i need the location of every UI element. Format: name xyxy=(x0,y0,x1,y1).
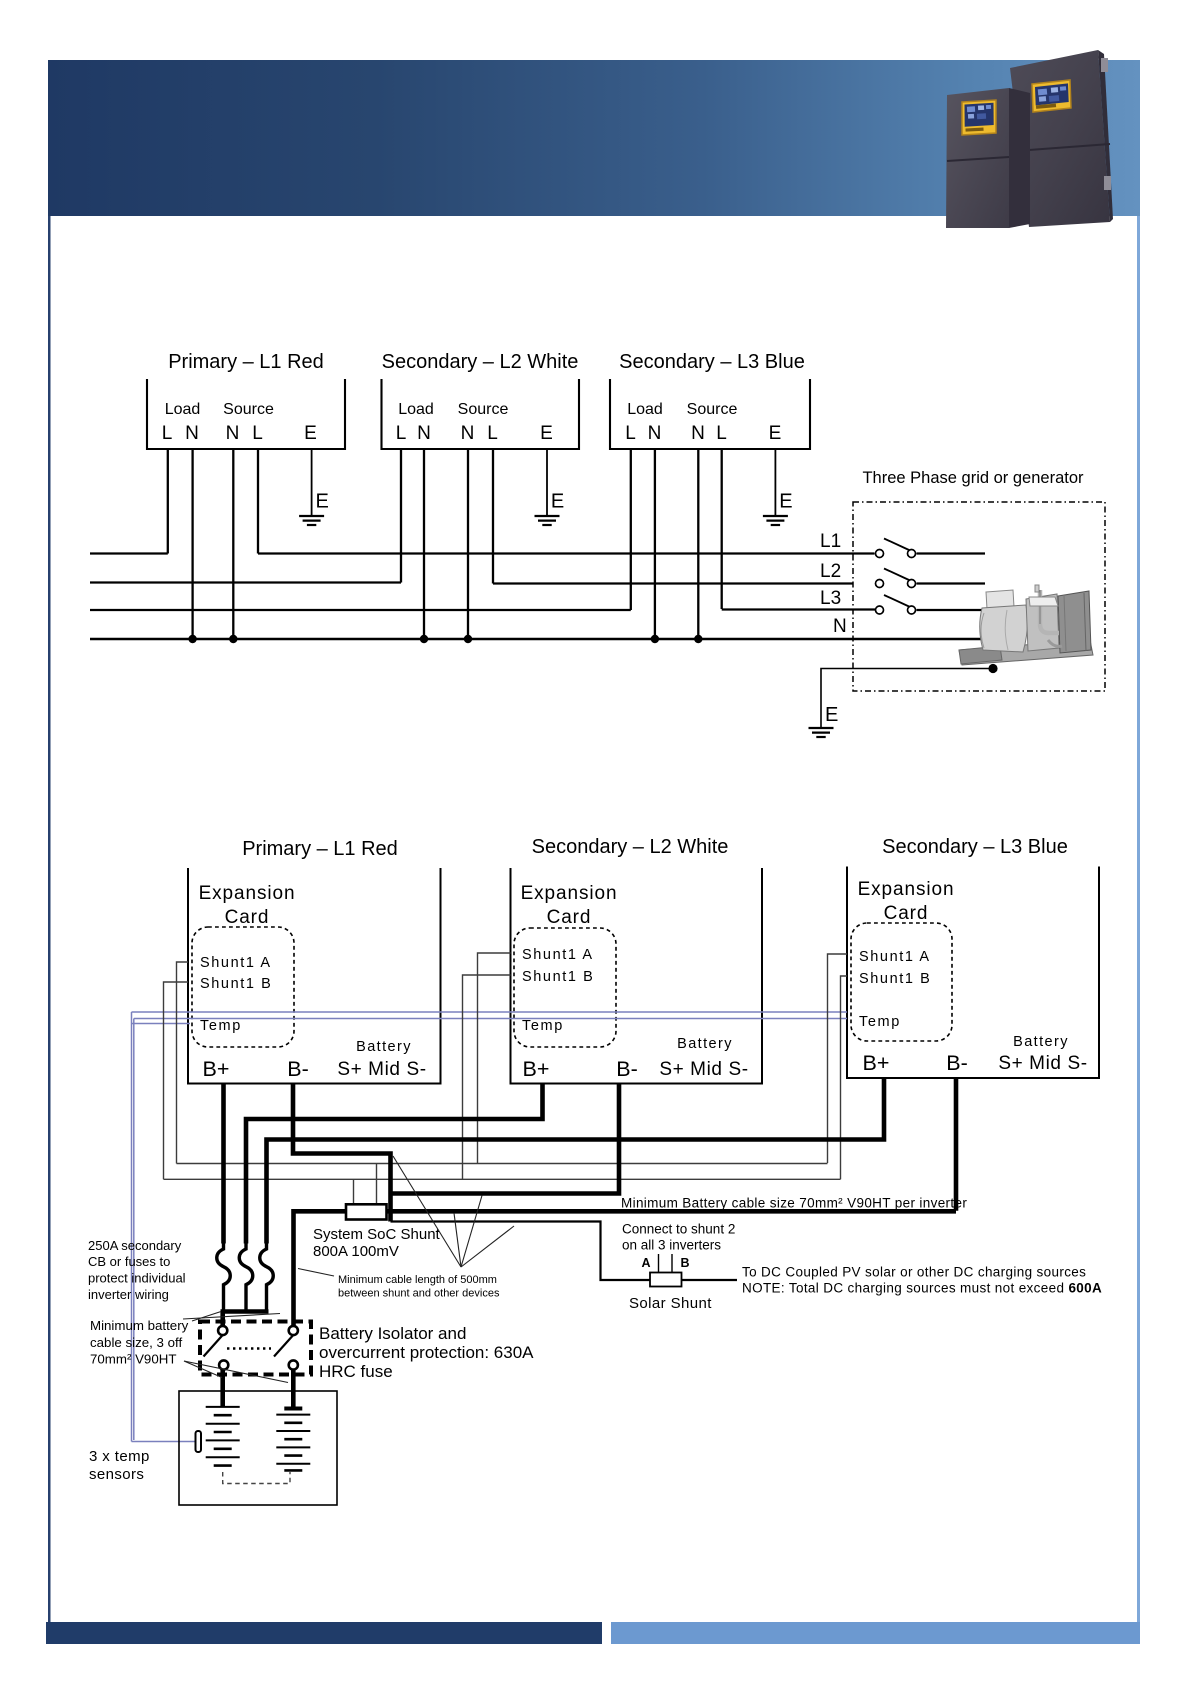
svg-text:Source: Source xyxy=(223,401,274,418)
svg-text:Shunt1 B: Shunt1 B xyxy=(859,971,931,987)
svg-text:L: L xyxy=(716,423,727,444)
svg-text:B+: B+ xyxy=(863,1051,890,1075)
svg-text:Secondary – L2 White: Secondary – L2 White xyxy=(532,836,729,858)
shunt sense terminal riser 1 xyxy=(353,1179,355,1205)
svg-text:L: L xyxy=(396,423,407,444)
svg-text:B: B xyxy=(680,1256,689,1270)
junction N-U1 source xyxy=(229,635,237,643)
svg-text:on all 3 inverters: on all 3 inverters xyxy=(622,1238,721,1253)
wire L3 load feeder to left xyxy=(90,609,631,611)
cable B+3 run xyxy=(267,1078,885,1244)
inverter DC box C (Secondary L3) xyxy=(847,867,1099,1079)
isolator gang dotted link xyxy=(227,1347,271,1349)
inverter AC box U2 (Secondary L2) xyxy=(382,379,580,449)
svg-text:Source: Source xyxy=(458,401,509,418)
wire U2 E drop xyxy=(546,449,548,516)
shunt sense wires thin xyxy=(164,953,848,1205)
leader fan ray 2 xyxy=(454,1213,461,1267)
ground symbol E under U3 xyxy=(763,516,788,525)
battery bank box xyxy=(179,1391,337,1505)
svg-text:E: E xyxy=(316,491,329,513)
LOWER-DIAGRAM xyxy=(188,867,1099,1084)
leader min battery long xyxy=(183,1314,280,1320)
svg-text:System SoC Shunt: System SoC Shunt xyxy=(313,1226,441,1243)
wire U1 Load N drop xyxy=(191,449,193,639)
wire L3 source bus xyxy=(722,608,875,610)
svg-text:E: E xyxy=(304,423,317,444)
svg-text:Load: Load xyxy=(165,401,201,418)
svg-text:B-: B- xyxy=(616,1057,638,1081)
svg-text:S+ Mid S-: S+ Mid S- xyxy=(337,1059,426,1080)
inverter photo left device xyxy=(946,88,1030,228)
svg-text:Shunt1 A: Shunt1 A xyxy=(200,955,272,971)
svg-text:E: E xyxy=(540,423,553,444)
isolator pole 2 blade xyxy=(274,1335,293,1357)
cable B-1 run xyxy=(293,1084,391,1222)
svg-text:S+ Mid S-: S+ Mid S- xyxy=(998,1053,1087,1074)
svg-text:Load: Load xyxy=(627,401,663,418)
fuse F3 squiggle xyxy=(260,1244,274,1312)
leader fan ray 1 xyxy=(393,1156,461,1267)
svg-text:B+: B+ xyxy=(523,1057,550,1081)
svg-text:Minimum Battery cable size 70m: Minimum Battery cable size 70mm² V90HT p… xyxy=(621,1196,967,1211)
blue temp riser xyxy=(131,1012,133,1442)
wire U3 Source N drop xyxy=(697,449,699,639)
svg-text:between shunt and other device: between shunt and other devices xyxy=(338,1288,500,1300)
inverter DC box A (Primary L1) xyxy=(188,868,441,1084)
leader V90HT to cable 2 xyxy=(184,1361,288,1383)
svg-text:Expansion: Expansion xyxy=(521,883,618,904)
leader fan ray 4 xyxy=(461,1226,514,1267)
temp sensor pill on battery xyxy=(196,1431,202,1452)
svg-text:L: L xyxy=(625,423,636,444)
wire L2 load feeder to left xyxy=(90,581,401,583)
inverter AC box U3 (Secondary L3) xyxy=(610,379,810,449)
svg-text:Secondary – L3 Blue: Secondary – L3 Blue xyxy=(619,351,805,373)
battery isolator dashed box xyxy=(200,1322,311,1375)
svg-text:N: N xyxy=(461,423,475,444)
ground symbol E generator xyxy=(809,728,834,737)
inverter DC box B (Secondary L2) xyxy=(511,868,763,1084)
sense wire A card entry xyxy=(177,962,189,1164)
sense wire box C A entry xyxy=(828,954,848,1163)
blue wire to sensor xyxy=(132,1441,196,1443)
sense net B horizontal xyxy=(164,1178,841,1180)
cable shunt to isolator xyxy=(294,1211,347,1326)
svg-text:Secondary – L3 Blue: Secondary – L3 Blue xyxy=(882,836,1068,858)
svg-text:overcurrent protection: 630A: overcurrent protection: 630A xyxy=(319,1343,534,1362)
svg-text:B-: B- xyxy=(287,1057,309,1081)
svg-text:B-: B- xyxy=(946,1051,968,1075)
svg-text:Battery Isolator and: Battery Isolator and xyxy=(319,1324,466,1343)
svg-text:Solar Shunt: Solar Shunt xyxy=(629,1295,712,1312)
svg-text:sensors: sensors xyxy=(89,1466,144,1483)
SoC shunt body xyxy=(346,1204,387,1219)
svg-text:B+: B+ xyxy=(203,1057,230,1081)
svg-text:E: E xyxy=(825,704,838,726)
cable B-3 drop xyxy=(954,1078,959,1211)
wire U3 E drop xyxy=(774,449,776,516)
svg-text:N: N xyxy=(691,423,705,444)
isolator pole 2 top contact xyxy=(289,1326,298,1335)
expansion card dashed outline B xyxy=(514,928,616,1047)
svg-text:Primary – L1 Red: Primary – L1 Red xyxy=(168,351,324,373)
isolator pole 1 top contact xyxy=(218,1326,227,1335)
cable B+1 drop xyxy=(221,1084,226,1244)
fuse F1 squiggle xyxy=(217,1244,231,1312)
svg-text:Card: Card xyxy=(884,903,929,924)
wire U3 Source L drop xyxy=(721,449,723,609)
cable isolator to battery plus xyxy=(220,1370,225,1407)
svg-text:Battery: Battery xyxy=(356,1039,412,1055)
svg-text:L1: L1 xyxy=(820,531,841,552)
junction N-U3 load xyxy=(651,635,659,643)
inverter AC box U1 (Primary L1) xyxy=(147,379,345,449)
svg-text:Battery: Battery xyxy=(1013,1034,1069,1050)
junction N-U3 source xyxy=(694,635,702,643)
blue temp line 2 xyxy=(134,1018,847,1020)
svg-text:E: E xyxy=(551,491,564,513)
leader min battery to bar xyxy=(192,1312,221,1322)
bottom footer bar navy xyxy=(46,1622,602,1644)
bottom footer bar light blue xyxy=(611,1622,1140,1644)
solar shunt sense stub B xyxy=(671,1254,673,1273)
cable bar to isolator xyxy=(220,1312,225,1327)
svg-text:cable size, 3 off: cable size, 3 off xyxy=(90,1335,182,1350)
svg-text:250A secondary: 250A secondary xyxy=(88,1238,182,1253)
svg-text:Shunt1 B: Shunt1 B xyxy=(200,976,272,992)
svg-text:protect individual: protect individual xyxy=(88,1271,186,1286)
svg-text:Card: Card xyxy=(225,907,270,928)
cable B-2 run xyxy=(391,1084,619,1194)
wire L1 source bus xyxy=(258,552,875,554)
svg-text:Primary – L1 Red: Primary – L1 Red xyxy=(242,838,398,860)
switch L1 xyxy=(876,539,916,558)
svg-text:A: A xyxy=(641,1256,650,1270)
fuse F2 squiggle xyxy=(239,1244,253,1312)
wire U2 Load N drop xyxy=(423,449,425,639)
isolator pole 1 bottom contact xyxy=(219,1360,228,1369)
generator enclosure dash-dot box xyxy=(853,502,1105,691)
expansion card dashed outline A xyxy=(192,927,294,1047)
svg-text:Card: Card xyxy=(547,907,592,928)
svg-text:Load: Load xyxy=(398,401,434,418)
leader lines xyxy=(183,1156,514,1383)
svg-text:Connect to shunt 2: Connect to shunt 2 xyxy=(622,1222,735,1237)
svg-text:70mm² V90HT: 70mm² V90HT xyxy=(90,1352,176,1367)
inverter photo right device xyxy=(1010,50,1113,227)
svg-text:L: L xyxy=(252,423,263,444)
battery stack 1 plates xyxy=(206,1407,240,1466)
LOWER-CABLES xyxy=(221,1078,957,1408)
svg-text:N: N xyxy=(417,423,431,444)
svg-text:L: L xyxy=(162,423,173,444)
battery stack 2 plates xyxy=(276,1409,310,1471)
sense wire box B B entry xyxy=(463,975,511,1179)
svg-text:S+ Mid S-: S+ Mid S- xyxy=(659,1059,748,1080)
svg-text:L: L xyxy=(487,423,498,444)
svg-text:L2: L2 xyxy=(820,561,841,582)
svg-text:E: E xyxy=(779,491,792,513)
leader V90HT to cable 1 xyxy=(184,1361,222,1378)
svg-text:3 x temp: 3 x temp xyxy=(89,1448,150,1465)
wire U1 Source L drop xyxy=(257,449,259,554)
switch L3 xyxy=(876,595,916,614)
svg-text:Expansion: Expansion xyxy=(199,883,296,904)
svg-text:Shunt1 B: Shunt1 B xyxy=(522,969,594,985)
svg-text:Secondary – L2 White: Secondary – L2 White xyxy=(382,351,579,373)
solar shunt feed wire xyxy=(391,1222,738,1281)
svg-text:To DC Coupled PV solar or othe: To DC Coupled PV solar or other DC charg… xyxy=(742,1265,1086,1280)
solar shunt body xyxy=(650,1273,682,1287)
wire L3 after switch xyxy=(917,609,984,611)
svg-text:L3: L3 xyxy=(820,588,841,609)
svg-text:CB or fuses to: CB or fuses to xyxy=(88,1254,170,1269)
wire U1 Load L drop xyxy=(167,449,169,554)
shunt sense terminal riser 2 xyxy=(376,1164,378,1206)
wire L2 source bus xyxy=(493,582,853,584)
leader fan ray 3 xyxy=(461,1196,482,1268)
wire U2 Source L drop xyxy=(492,449,494,584)
battery series dashed link xyxy=(223,1472,290,1484)
svg-text:Minimum cable length of 500mm: Minimum cable length of 500mm xyxy=(338,1274,497,1286)
header banner gradient bar xyxy=(48,60,1140,216)
generator clip-art xyxy=(959,585,1093,665)
cable B- bus xyxy=(386,1209,956,1214)
generator earth junction dot xyxy=(988,664,997,673)
isolator pole 1 blade xyxy=(204,1335,223,1357)
junction N-U2 load xyxy=(420,635,428,643)
svg-text:800A 100mV: 800A 100mV xyxy=(313,1243,399,1260)
blue temp riser 2 xyxy=(133,1019,135,1441)
junction N-U1 load xyxy=(188,635,196,643)
svg-text:Temp: Temp xyxy=(859,1014,901,1030)
blue temp line 3 short xyxy=(132,1023,191,1025)
wire L2 after switch xyxy=(917,582,986,584)
wire U1 E drop xyxy=(311,449,313,516)
switch L2 xyxy=(876,569,916,588)
expansion card dashed outline C xyxy=(851,923,952,1041)
cable fuse output bar xyxy=(221,1309,269,1314)
svg-text:Source: Source xyxy=(687,401,738,418)
ground symbol E under U2 xyxy=(535,516,560,525)
sense wire B card entry xyxy=(164,982,189,1179)
svg-text:Shunt1 A: Shunt1 A xyxy=(522,947,594,963)
sense net A horizontal xyxy=(177,1163,828,1165)
svg-text:NOTE: Total DC charging source: NOTE: Total DC charging sources must not… xyxy=(742,1281,1102,1296)
svg-text:N: N xyxy=(648,423,662,444)
left page border line xyxy=(48,216,51,1622)
svg-text:N: N xyxy=(833,616,847,637)
svg-text:Expansion: Expansion xyxy=(858,879,955,900)
svg-text:N: N xyxy=(226,423,240,444)
svg-text:N: N xyxy=(185,423,199,444)
svg-text:Temp: Temp xyxy=(522,1018,564,1034)
wire U2 Load L drop xyxy=(400,449,402,583)
temp sensor blue wires xyxy=(132,1012,848,1442)
isolator pole 2 bottom contact xyxy=(289,1360,298,1369)
right page border line xyxy=(1137,216,1140,1622)
junction N-U2 source xyxy=(464,635,472,643)
leader min cable length left xyxy=(298,1269,334,1277)
wire generator earth run xyxy=(821,669,993,729)
wire U2 Source N drop xyxy=(467,449,469,639)
solar shunt sense stub A xyxy=(658,1254,660,1273)
wire U3 Load L drop xyxy=(630,449,632,610)
cable isolator to battery minus xyxy=(291,1370,296,1409)
svg-text:Minimum battery: Minimum battery xyxy=(90,1318,189,1333)
sense wire box B A entry xyxy=(478,953,511,1164)
wire U1 Source N drop xyxy=(232,449,234,639)
ground symbol E under U1 xyxy=(299,516,324,525)
wire N bus xyxy=(90,638,983,641)
UPPER-DIAGRAM xyxy=(147,379,810,449)
svg-text:Temp: Temp xyxy=(200,1018,242,1034)
svg-text:Three Phase grid or generator: Three Phase grid or generator xyxy=(862,469,1084,487)
blue temp line 1 xyxy=(132,1011,848,1013)
wire L1 load feeder to left xyxy=(90,552,168,554)
svg-text:Shunt1 A: Shunt1 A xyxy=(859,949,931,965)
cable B+2 run xyxy=(246,1084,543,1244)
svg-text:inverter wiring: inverter wiring xyxy=(88,1287,169,1302)
svg-text:HRC fuse: HRC fuse xyxy=(319,1362,393,1381)
sense wire box C B entry xyxy=(841,976,848,1179)
svg-text:E: E xyxy=(769,423,782,444)
wire U3 Load N drop xyxy=(654,449,656,639)
wire L1 after switch xyxy=(917,552,986,554)
svg-text:Battery: Battery xyxy=(677,1036,733,1052)
